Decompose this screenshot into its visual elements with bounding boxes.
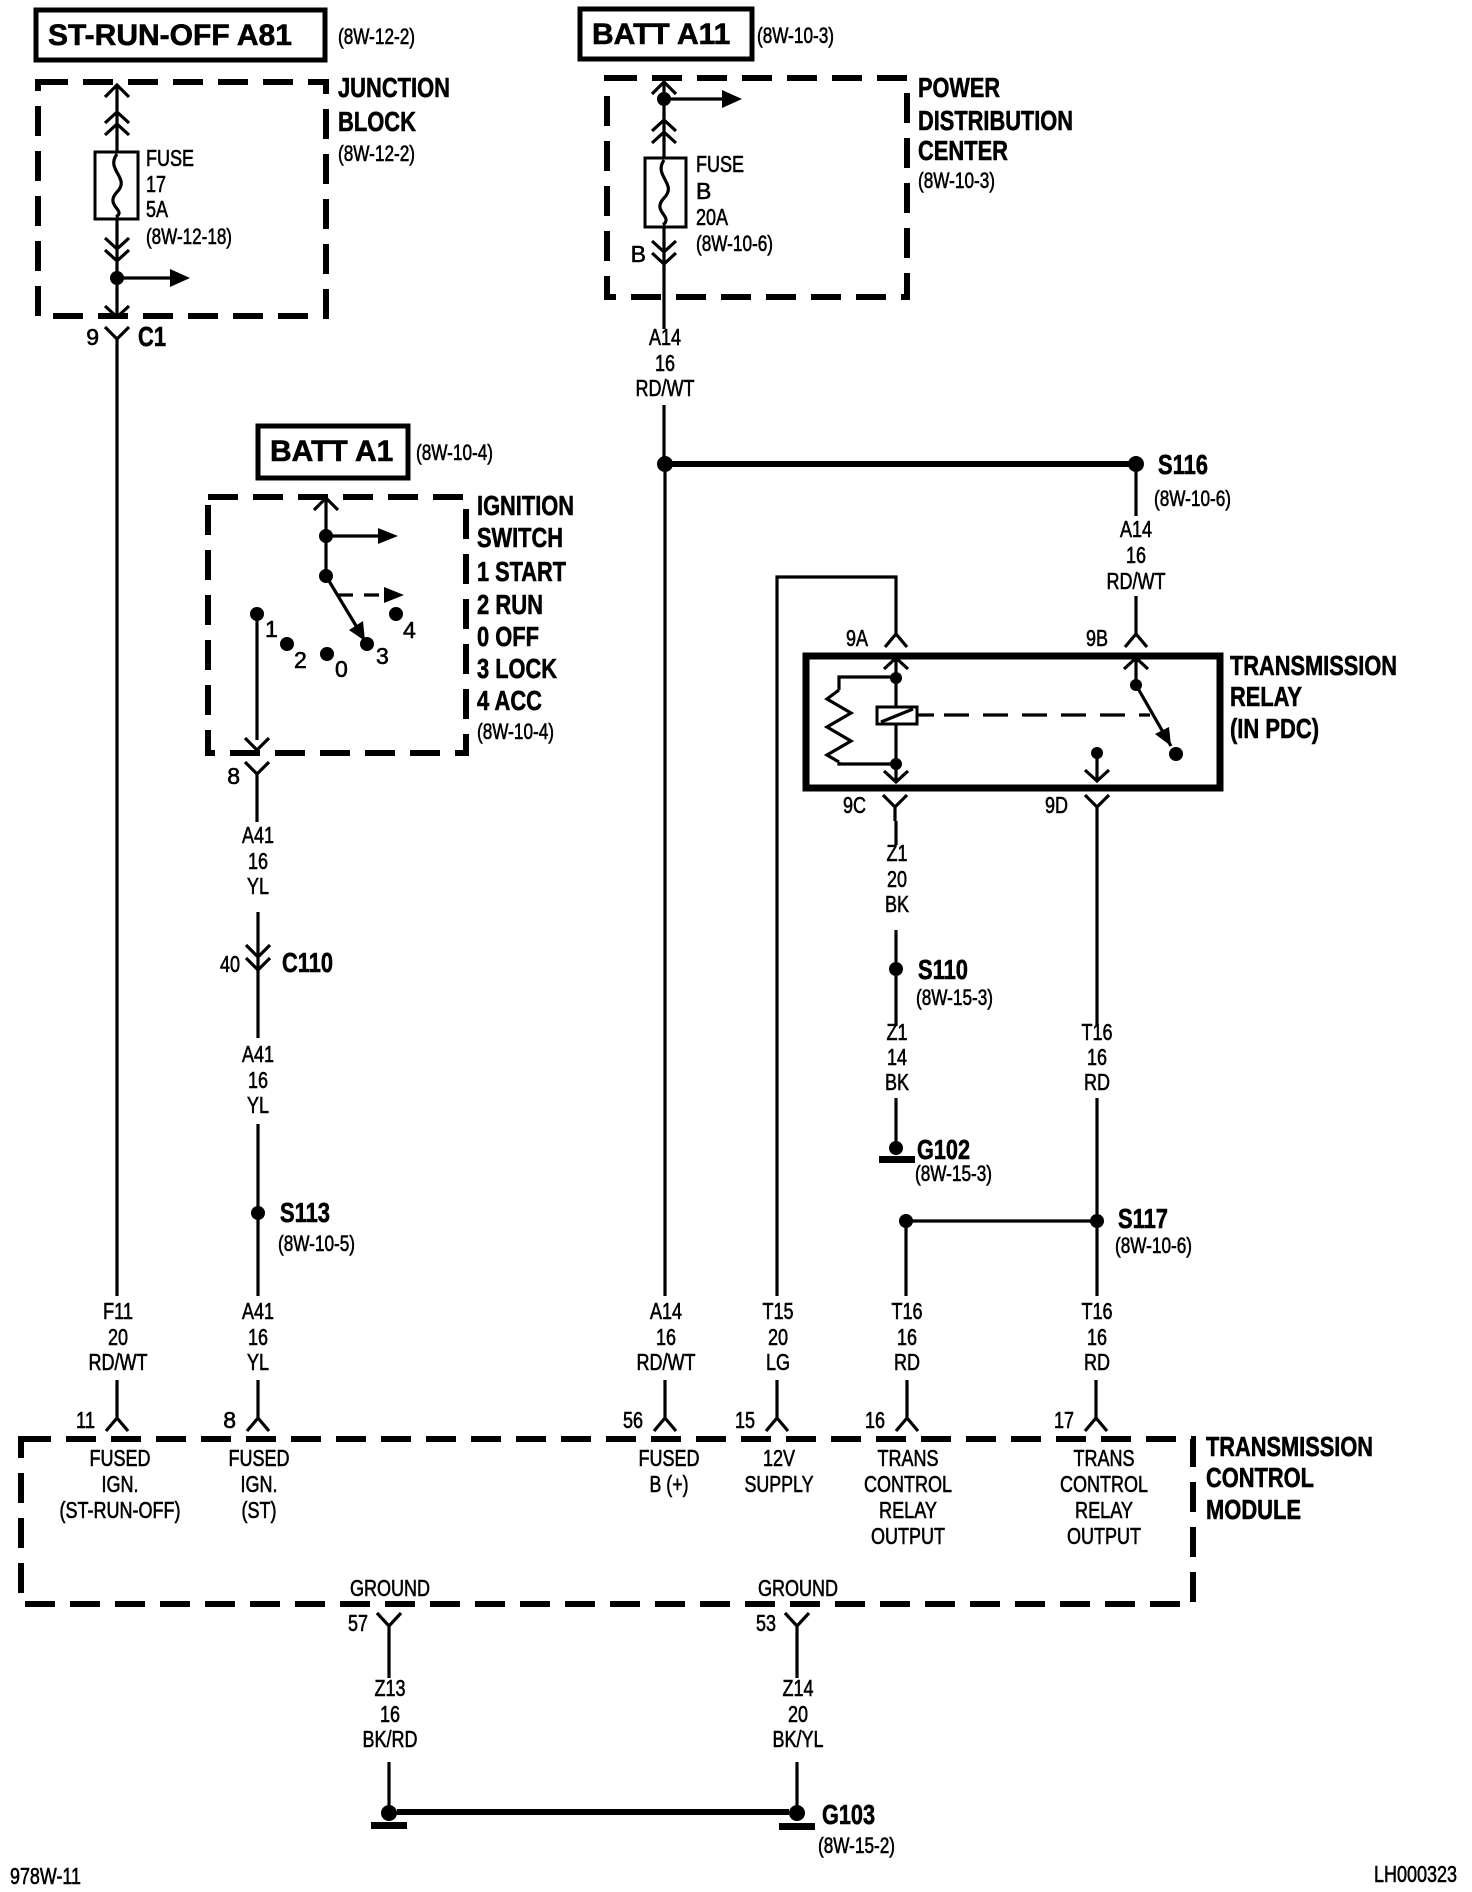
svg-text:9: 9: [86, 324, 99, 350]
connector C110 pin 40: [220, 945, 333, 978]
splice S113: [251, 1197, 355, 1256]
svg-text:2: 2: [294, 647, 307, 673]
wire A14 down to pin 56: [663, 472, 666, 1296]
ignition switch dashed box: [208, 497, 466, 753]
coil top node dot: [890, 672, 902, 684]
connector 9C: [843, 792, 907, 821]
svg-text:CONTROL: CONTROL: [1060, 1471, 1148, 1497]
transmission control module label: [1206, 1431, 1373, 1525]
svg-text:Z1: Z1: [887, 840, 908, 866]
svg-text:T16: T16: [892, 1298, 923, 1324]
svg-text:T16: T16: [1082, 1019, 1113, 1045]
svg-text:BLOCK: BLOCK: [338, 106, 416, 137]
junction block label: [338, 72, 450, 166]
TCM pin 15: [735, 1404, 788, 1433]
svg-text:RD: RD: [894, 1349, 920, 1375]
svg-text:(IN PDC): (IN PDC): [1230, 713, 1319, 744]
wire to G103: [397, 1809, 789, 1815]
wire Z13 16 BK/RD: [387, 1650, 390, 1678]
connector box BATT A11: [580, 9, 752, 59]
svg-text:53: 53: [756, 1610, 776, 1636]
wire: [1094, 1380, 1097, 1404]
svg-text:ST-RUN-OFF A81: ST-RUN-OFF A81: [48, 19, 292, 52]
wire: [894, 1098, 897, 1141]
resistor coil suppression: [827, 690, 851, 762]
wire Z1 14 BK: [894, 976, 897, 1026]
connector box BATT A1: [258, 426, 408, 478]
TCM pin 17: [1054, 1404, 1107, 1433]
fuse 17 labels: [146, 145, 232, 249]
ground dot left G103: [371, 1805, 407, 1829]
svg-text:20: 20: [108, 1324, 128, 1350]
svg-text:14: 14: [887, 1044, 907, 1070]
TCM pin 56: [623, 1404, 676, 1433]
svg-text:(8W-10-4): (8W-10-4): [416, 440, 493, 465]
svg-text:IGN.: IGN.: [241, 1471, 278, 1497]
svg-text:RD: RD: [1084, 1069, 1110, 1095]
svg-text:TRANSMISSION: TRANSMISSION: [1230, 650, 1397, 681]
double chevron down: [652, 241, 676, 264]
svg-text:FUSED: FUSED: [229, 1445, 290, 1471]
svg-text:LG: LG: [766, 1349, 790, 1375]
contact 2 RUN dot: [280, 637, 307, 673]
svg-text:CENTER: CENTER: [918, 135, 1008, 166]
svg-text:BK/RD: BK/RD: [363, 1726, 418, 1752]
svg-text:MODULE: MODULE: [1206, 1494, 1301, 1525]
transmission relay box: [806, 656, 1220, 788]
wire: [115, 85, 118, 152]
svg-text:(8W-10-4): (8W-10-4): [477, 719, 554, 744]
svg-text:20: 20: [768, 1324, 788, 1350]
contact 0 OFF dot: [320, 647, 348, 682]
svg-text:RELAY: RELAY: [1230, 681, 1302, 712]
TCM pin 57: [348, 1610, 401, 1650]
svg-text:8: 8: [223, 1407, 236, 1433]
connector 9A: [846, 610, 907, 651]
arrow tap right: [117, 269, 190, 287]
wire: [662, 82, 665, 158]
svg-text:JUNCTION: JUNCTION: [338, 72, 450, 103]
arrow into relay pin 9B: [1124, 658, 1148, 685]
wire A14 16 RD/WT: [662, 227, 665, 329]
TCM pin 8: [223, 1404, 269, 1433]
connector 9D: [1045, 792, 1109, 821]
ground G102: [879, 1134, 992, 1186]
arrow tap right: [664, 90, 742, 108]
svg-text:RD/WT: RD/WT: [89, 1349, 148, 1375]
svg-text:9B: 9B: [1086, 625, 1108, 651]
wire Z14 20 BK/YL: [795, 1650, 798, 1678]
svg-text:BK: BK: [885, 891, 910, 917]
svg-text:(8W-10-6): (8W-10-6): [1115, 1233, 1192, 1258]
arrow down to 9D: [1085, 753, 1109, 781]
svg-text:RD/WT: RD/WT: [637, 1349, 696, 1375]
svg-text:S113: S113: [280, 1197, 330, 1228]
wire: [256, 1380, 259, 1404]
TCM pin 53: [756, 1610, 809, 1650]
wire: [1095, 1228, 1098, 1296]
switch common dot: [1130, 679, 1142, 691]
wire: [1134, 472, 1137, 516]
fuse 17 5A: [95, 152, 138, 219]
svg-text:YL: YL: [247, 1349, 269, 1375]
wire: [775, 1380, 778, 1404]
wire: [324, 498, 327, 576]
svg-text:RD/WT: RD/WT: [1107, 568, 1166, 594]
svg-text:16: 16: [1087, 1324, 1107, 1350]
svg-text:FUSED: FUSED: [90, 1445, 151, 1471]
wire: [115, 1380, 118, 1404]
wire Z1 20 BK: [894, 821, 897, 845]
svg-text:57: 57: [348, 1610, 368, 1636]
arrow up to ST-RUN-OFF feed: [105, 85, 129, 97]
splice junction dot: [657, 456, 673, 472]
svg-text:9A: 9A: [846, 625, 869, 651]
contact dot to 9D: [1091, 747, 1103, 759]
splice S116: [1128, 449, 1231, 511]
actuator dashed link: [917, 713, 934, 716]
svg-text:A41: A41: [242, 1041, 274, 1067]
chevron at box exit: [105, 306, 129, 317]
svg-text:YL: YL: [247, 873, 269, 899]
svg-text:Z13: Z13: [375, 1675, 406, 1701]
svg-text:B: B: [696, 178, 711, 204]
svg-text:RD: RD: [1084, 1349, 1110, 1375]
wire junction to S117: [906, 1219, 1097, 1222]
svg-text:16: 16: [656, 1324, 676, 1350]
svg-text:17: 17: [1054, 1407, 1074, 1433]
wire: [905, 1380, 908, 1404]
arrow up to BATT A1 feed: [314, 498, 338, 510]
svg-text:S117: S117: [1118, 1203, 1168, 1234]
svg-text:(ST): (ST): [242, 1497, 277, 1523]
switch blade to position 3: [326, 576, 365, 641]
svg-text:20: 20: [788, 1701, 808, 1727]
svg-text:SWITCH: SWITCH: [477, 522, 563, 553]
svg-text:20: 20: [887, 866, 907, 892]
svg-text:9C: 9C: [843, 792, 866, 818]
svg-text:C1: C1: [138, 321, 166, 352]
wire: [662, 405, 665, 464]
svg-text:16: 16: [897, 1324, 917, 1350]
svg-text:TRANS: TRANS: [878, 1445, 939, 1471]
svg-text:(8W-10-3): (8W-10-3): [757, 23, 834, 48]
dashed arrow run position: [338, 587, 404, 603]
svg-text:1: 1: [265, 616, 278, 642]
double chevron up: [652, 120, 676, 143]
wire: [1095, 1098, 1098, 1214]
svg-text:16: 16: [380, 1701, 400, 1727]
svg-text:(8W-12-18): (8W-12-18): [146, 224, 232, 249]
wire from contact 1: [255, 621, 258, 740]
svg-text:IGNITION: IGNITION: [477, 490, 574, 521]
wire: [256, 912, 259, 978]
wire to resistor: [839, 677, 896, 690]
svg-text:BK/YL: BK/YL: [773, 1726, 824, 1752]
wire through coil: [894, 678, 897, 764]
svg-text:F11: F11: [103, 1298, 133, 1324]
ignition switch label: [477, 490, 574, 744]
svg-text:11: 11: [76, 1407, 95, 1433]
power distribution center label: [918, 72, 1073, 193]
svg-text:40: 40: [220, 951, 240, 977]
svg-text:12V: 12V: [763, 1445, 796, 1471]
svg-text:(8W-12-2): (8W-12-2): [338, 141, 415, 166]
junction dot T16: [899, 1214, 913, 1228]
svg-text:BATT A1: BATT A1: [270, 435, 393, 468]
wire F11 20 RD/WT: [115, 355, 118, 1296]
wire T15 to relay coil: [777, 577, 896, 1296]
svg-text:(ST-RUN-OFF): (ST-RUN-OFF): [60, 1497, 181, 1523]
svg-text:(8W-10-3): (8W-10-3): [918, 168, 995, 193]
svg-text:9D: 9D: [1045, 792, 1068, 818]
svg-text:TRANS: TRANS: [1074, 1445, 1135, 1471]
svg-text:4 ACC: 4 ACC: [477, 685, 542, 716]
junction dot: [110, 271, 124, 285]
svg-text:8: 8: [227, 763, 240, 789]
splice S117: [1090, 1203, 1192, 1258]
wire T16 16 RD to pin 16: [904, 1221, 907, 1296]
svg-text:(8W-15-2): (8W-15-2): [818, 1833, 895, 1858]
wire: [387, 1762, 390, 1806]
svg-text:3 LOCK: 3 LOCK: [477, 653, 557, 684]
svg-text:BK: BK: [885, 1069, 910, 1095]
svg-text:T15: T15: [763, 1298, 794, 1324]
svg-text:RELAY: RELAY: [1075, 1497, 1133, 1523]
svg-text:S116: S116: [1158, 449, 1208, 480]
svg-text:CONTROL: CONTROL: [864, 1471, 952, 1497]
svg-text:SUPPLY: SUPPLY: [745, 1471, 814, 1497]
svg-text:(8W-10-6): (8W-10-6): [1154, 486, 1231, 511]
splice S110: [889, 954, 993, 1010]
svg-text:(8W-10-6): (8W-10-6): [696, 231, 773, 256]
transmission relay label: [1230, 650, 1397, 744]
contact 3 LOCK dot: [360, 637, 389, 669]
svg-text:RELAY: RELAY: [879, 1497, 937, 1523]
svg-text:OUTPUT: OUTPUT: [871, 1523, 945, 1549]
arrow into relay pin 9A: [884, 658, 908, 678]
TCM pin 11: [76, 1404, 128, 1433]
svg-text:T16: T16: [1082, 1298, 1113, 1324]
svg-text:(8W-10-5): (8W-10-5): [278, 1231, 355, 1256]
svg-text:16: 16: [1126, 542, 1146, 568]
wire: [795, 1762, 798, 1806]
switch pivot dot: [319, 569, 333, 583]
relay switch blade: [1136, 685, 1183, 761]
ground G103: [779, 1799, 895, 1858]
wire from resistor: [839, 762, 896, 764]
double chevron down: [105, 238, 129, 261]
wire A41 16 YL: [255, 790, 258, 822]
svg-text:(8W-15-3): (8W-15-3): [916, 985, 993, 1010]
wire: [894, 930, 897, 962]
coil bottom node dot: [890, 758, 902, 770]
wire: [663, 1380, 666, 1404]
junction dot: [657, 92, 671, 106]
svg-text:OUTPUT: OUTPUT: [1067, 1523, 1141, 1549]
svg-text:DISTRIBUTION: DISTRIBUTION: [918, 105, 1073, 136]
wire: [1134, 596, 1137, 610]
svg-text:16: 16: [248, 1324, 268, 1350]
connector box ST-RUN-OFF A81: [36, 10, 325, 60]
svg-text:(8W-12-2): (8W-12-2): [338, 24, 415, 49]
switch common node dot: [319, 529, 333, 543]
double chevron up: [105, 112, 129, 135]
connector pin 8 ignition switch: [227, 762, 269, 790]
connector 9B: [1086, 610, 1147, 651]
svg-text:16: 16: [865, 1407, 885, 1433]
svg-text:0 OFF: 0 OFF: [477, 621, 539, 652]
contact 4 ACC dot: [389, 607, 416, 643]
svg-text:BATT A11: BATT A11: [592, 18, 730, 51]
wire: [256, 1124, 259, 1296]
svg-text:S110: S110: [918, 954, 968, 985]
svg-text:RD/WT: RD/WT: [636, 375, 695, 401]
svg-text:FUSE: FUSE: [696, 151, 744, 177]
svg-text:20A: 20A: [696, 204, 729, 230]
svg-text:A14: A14: [649, 324, 681, 350]
contact 1 START dot: [250, 607, 278, 642]
svg-text:LH000323: LH000323: [1374, 1861, 1457, 1887]
svg-text:A41: A41: [242, 822, 274, 848]
svg-text:GROUND: GROUND: [350, 1575, 430, 1601]
svg-text:15: 15: [735, 1407, 755, 1433]
svg-text:A41: A41: [242, 1298, 274, 1324]
svg-text:3: 3: [376, 643, 389, 669]
TCM pin 16: [865, 1404, 918, 1433]
wire 9D to S117: [1095, 821, 1098, 1026]
arrow tap right: [326, 528, 398, 544]
fuse B labels: [696, 151, 773, 256]
svg-text:(8W-15-3): (8W-15-3): [915, 1161, 992, 1186]
svg-text:YL: YL: [247, 1092, 269, 1118]
svg-text:17: 17: [146, 171, 166, 197]
relay coil: [877, 707, 917, 724]
svg-text:16: 16: [248, 848, 268, 874]
svg-text:FUSED: FUSED: [639, 1445, 700, 1471]
svg-text:C110: C110: [282, 947, 333, 978]
svg-text:16: 16: [655, 350, 675, 376]
svg-text:978W-11: 978W-11: [10, 1863, 81, 1889]
arrow down at box exit: [245, 738, 269, 750]
arrow up to BATT A11 feed: [652, 82, 676, 94]
svg-text:1 START: 1 START: [477, 556, 566, 587]
svg-text:5A: 5A: [146, 196, 169, 222]
svg-text:Z14: Z14: [783, 1675, 814, 1701]
wire to S116: [665, 461, 1136, 467]
svg-text:2 RUN: 2 RUN: [477, 589, 543, 620]
svg-text:56: 56: [623, 1407, 643, 1433]
svg-text:CONTROL: CONTROL: [1206, 1462, 1314, 1493]
svg-text:16: 16: [248, 1067, 268, 1093]
svg-text:TRANSMISSION: TRANSMISSION: [1206, 1431, 1373, 1462]
svg-text:Z1: Z1: [887, 1019, 908, 1045]
transmission control module dashed box: [21, 1439, 1193, 1604]
svg-text:B: B: [631, 241, 646, 267]
power distribution center dashed box: [607, 78, 907, 297]
svg-text:G103: G103: [822, 1799, 875, 1830]
svg-text:16: 16: [1087, 1044, 1107, 1070]
wire: [256, 978, 259, 1038]
svg-text:IGN.: IGN.: [102, 1471, 139, 1497]
arrow down to 9C: [884, 764, 908, 782]
wire: [115, 219, 118, 316]
svg-text:0: 0: [335, 656, 348, 682]
svg-text:4: 4: [403, 617, 416, 643]
svg-text:A14: A14: [1120, 516, 1152, 542]
svg-text:A14: A14: [650, 1298, 682, 1324]
junction block dashed box: [38, 82, 326, 316]
fuse B 20A: [645, 158, 686, 227]
connector C1 pin 9: [86, 321, 166, 355]
svg-text:B (+): B (+): [650, 1471, 689, 1497]
svg-text:GROUND: GROUND: [758, 1575, 838, 1601]
svg-text:POWER: POWER: [918, 72, 1000, 103]
svg-text:FUSE: FUSE: [146, 145, 194, 171]
